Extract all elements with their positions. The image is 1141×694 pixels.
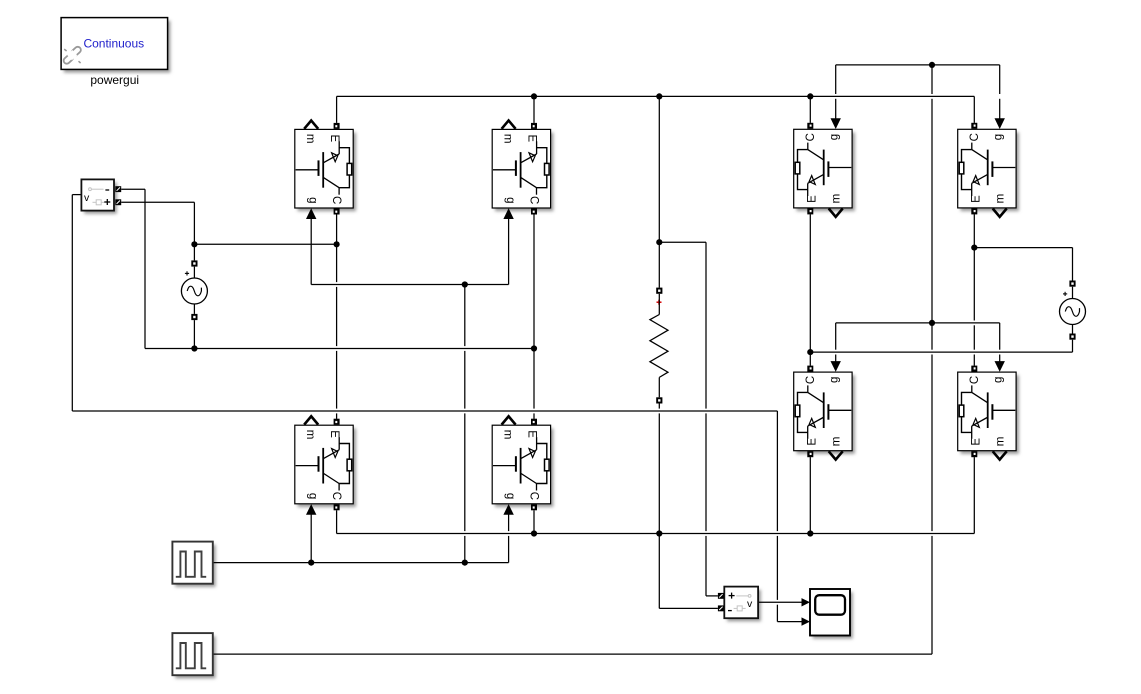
svg-text:powergui: powergui [90,73,139,87]
wire Vm2 plus in [706,595,718,597]
scope block [802,589,851,636]
wire gate Q8 [999,323,1001,363]
wire E7 stub [809,457,811,533]
wire Vm1 minus drop [144,189,146,348]
wire AC1 bottom stub [193,320,195,348]
wire R bottom to Vm2 minus [658,404,660,609]
wire gate Q5 [835,65,837,121]
wire C4 drop [533,510,535,533]
wire E8 stub [973,457,975,533]
wire gate Q3 [310,514,312,562]
IGBT/Diode block Q1 [295,120,353,219]
svg-text:v: v [84,192,90,204]
IGBT/Diode block Q8 (rotated) [958,361,1016,460]
wire C1-E3 [336,214,338,419]
wire PG2 riser [931,65,933,654]
voltage measurement Vm1 (flipped) [81,179,121,210]
wire Vm1 to scope drop [776,411,778,622]
IGBT/Diode block Q7 (rotated) [794,361,852,460]
wire Vm1 long rail [72,410,777,412]
wire R top branch [659,241,706,243]
wire bottom load rail [337,533,975,535]
wire C5 stub [809,96,811,123]
wire gate rail Q7-Q8 [836,322,1000,324]
wire top DC rail [337,95,975,97]
wire AC2 bottom rail [810,351,1072,353]
wire AC1 top rail [194,243,336,245]
scope input arrows [802,598,811,606]
wire AC2 bottom stub [1072,340,1074,352]
resistor R load [650,288,668,404]
wire Vm1 output left drop [71,195,73,411]
svg-text:v: v [747,598,753,610]
wire gate Q4 [508,514,510,562]
wire C3 drop [336,510,338,533]
wire PG2 output [213,653,932,655]
wire Vm2 to scope [758,601,802,603]
wire E5-C7 [809,214,811,365]
wire gate rail Q1-Q2 [311,284,508,286]
wire gate Q7 [835,323,837,363]
wire C6 stub [973,96,975,123]
pulse generator PG1 [172,542,212,584]
wire gate rail Q5-Q6 [836,64,1000,66]
voltage measurement Vm2 [718,587,758,619]
IGBT/Diode block Q5 (rotated) [794,118,852,217]
wire E1 stub [336,96,338,123]
wire gate Q6 [999,65,1001,121]
Vm2 port squares [718,593,724,599]
block drop shadows [61,18,1016,676]
wire gate Q1 [310,219,312,285]
wire AC1 top stub [193,244,195,260]
wire rail to R top [658,96,660,287]
wire AC2 top stub [1072,248,1074,281]
wire Vm1 plus drop [193,202,195,244]
wire Vm1 output [72,194,81,196]
wire R top to Vm2 plus riser [705,242,707,596]
Vm1 port squares [115,186,121,192]
wire AC1 bottom rail [145,348,534,350]
wire Vm2 minus in [659,607,718,609]
wire E2 stub [533,96,535,123]
svg-text:Continuous: Continuous [83,37,144,51]
IGBT/Diode block Q2 [492,120,550,219]
wire Vm1 minus out [121,188,145,190]
wire gate Q2 [508,219,510,285]
wire AC2 top rail [974,247,1072,249]
pulse generator PG2 [172,633,212,675]
IGBT/Diode block Q4 [492,416,550,514]
powergui block [61,18,168,70]
AC voltage source AC2 [1060,281,1086,340]
wire Vm1 plus out [121,201,194,203]
wire PG1 output [213,562,509,564]
IGBT/Diode block Q6 (rotated) [958,118,1016,217]
wire C2-E4 [533,214,535,419]
wire E6-C8 [973,214,975,365]
wire PG1 riser [464,285,466,563]
wire to scope input 2 [777,621,801,623]
wire crossing gaps [335,94,1001,605]
IGBT/Diode block Q3 [295,416,353,514]
AC voltage source AC1 [181,260,207,320]
